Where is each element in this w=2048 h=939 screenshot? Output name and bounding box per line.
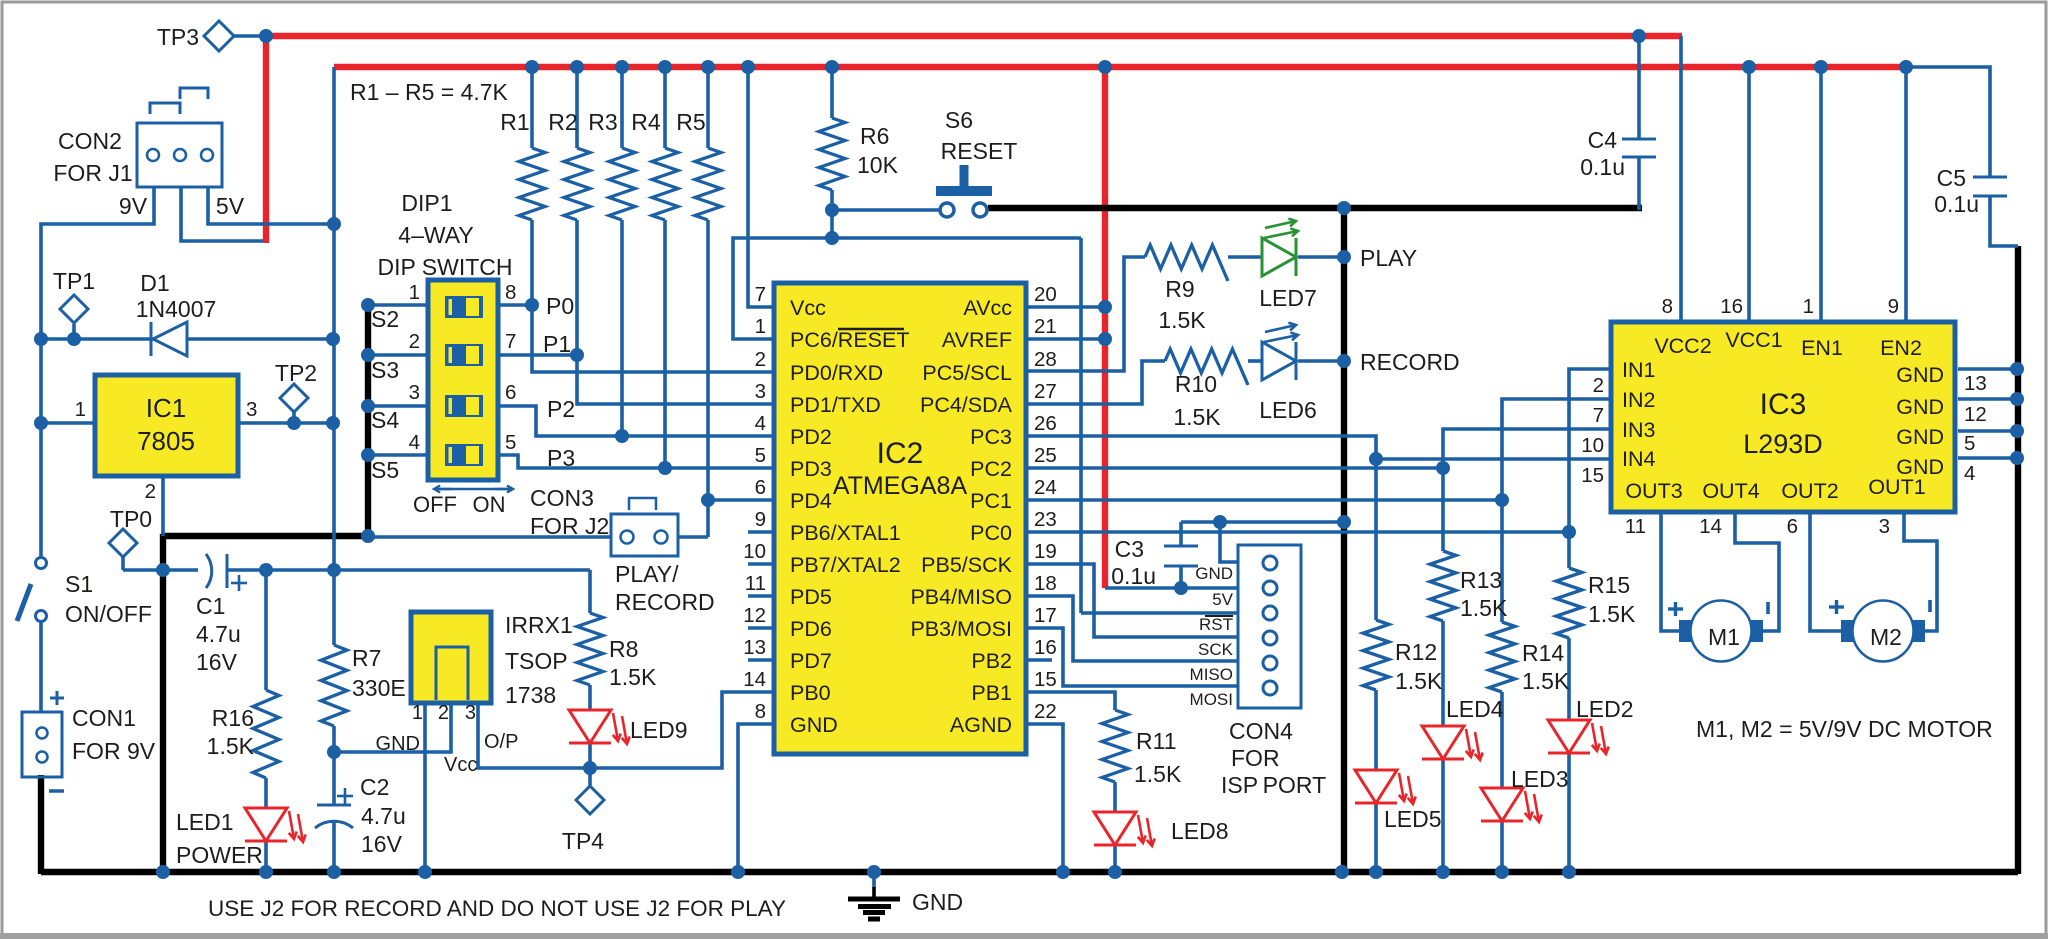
svg-text:P2: P2 [547,396,575,422]
svg-text:2: 2 [145,480,156,503]
svg-text:ISP PORT: ISP PORT [1221,772,1326,798]
wire LED6 to RECORD node [1298,359,1344,363]
svg-text:PD5: PD5 [790,585,832,609]
wire OUT1 to M2 minus [1904,514,1937,631]
svg-text:PB0: PB0 [790,681,831,705]
svg-text:19: 19 [1034,540,1057,563]
svg-text:26: 26 [1034,412,1057,435]
wire R4 top lead [663,67,667,148]
wire CON2 left pin 9V drop [41,187,154,559]
svg-text:LED5: LED5 [1384,806,1442,832]
svg-text:R8: R8 [609,636,638,662]
LED6 record indicator (blue) [1262,342,1296,380]
svg-text:PC4/SDA: PC4/SDA [920,393,1013,417]
svg-text:LED4: LED4 [1446,696,1504,722]
svg-text:R11: R11 [1136,728,1177,754]
wire Vcc feed to IC2 pin7 [748,67,774,307]
svg-text:1.5K: 1.5K [1588,601,1636,627]
svg-text:20: 20 [1034,283,1057,306]
wire CON2 right pin 5V [208,187,334,224]
svg-text:CON3: CON3 [530,485,594,511]
svg-text:15: 15 [1034,668,1057,691]
svg-text:4.7u: 4.7u [196,621,241,647]
svg-text:TP3: TP3 [157,24,199,50]
svg-text:16V: 16V [196,649,238,675]
svg-text:OUT4: OUT4 [1702,479,1759,503]
svg-text:R10: R10 [1175,371,1217,397]
svg-text:8: 8 [505,281,516,304]
LED2 [1548,720,1590,753]
LED3 [1481,788,1523,821]
svg-text:16V: 16V [361,831,403,857]
svg-text:M1: M1 [1708,624,1740,650]
wire DIP pin3 stub [368,404,430,408]
svg-text:TSOP: TSOP [505,648,568,674]
svg-text:IRRX1: IRRX1 [505,612,573,638]
resistor R14 1.5K [1489,622,1515,692]
svg-text:S4: S4 [371,407,399,433]
svg-text:GND: GND [1896,363,1944,387]
svg-text:EN1: EN1 [1801,336,1843,360]
resistors R1-R5 pullups [519,148,545,220]
regulator IC1 7805 [95,375,238,476]
connector CON4 ISP port [1238,545,1301,708]
svg-text:12: 12 [1964,403,1987,426]
wire R5 top lead [706,67,710,148]
svg-text:RESET: RESET [941,138,1018,164]
svg-text:R12: R12 [1395,639,1437,665]
svg-text:R4: R4 [631,109,661,135]
svg-text:15: 15 [1581,464,1604,487]
resistor R6 10K [819,118,845,190]
resistor R8 1.5K [577,613,603,685]
svg-text:PC3: PC3 [970,425,1012,449]
svg-text:2: 2 [438,702,449,724]
svg-text:3: 3 [409,381,420,404]
svg-text:FOR J1: FOR J1 [53,160,132,186]
capacitor C1 4.7u 16V [206,554,212,588]
testpoint TP3 [204,21,234,51]
wire LED9 to O/P node [588,743,592,768]
svg-text:1.5K: 1.5K [1158,307,1206,333]
svg-text:LED6: LED6 [1259,397,1317,423]
wire LED1 to ground [264,841,268,872]
svg-text:ATMEGA8A: ATMEGA8A [833,472,968,500]
svg-text:LED3: LED3 [1511,766,1569,792]
svg-text:PC1: PC1 [970,489,1012,513]
svg-text:C1: C1 [196,593,225,619]
resistor R9 1.5K [1145,245,1228,281]
svg-text:6: 6 [1787,515,1798,538]
svg-text:C2: C2 [360,774,389,800]
svg-text:3: 3 [465,702,476,724]
wire EN2 drop [1904,67,1908,322]
svg-text:VCC2: VCC2 [1654,334,1711,358]
wire R10 to LED6 [1248,359,1262,363]
motor M2 [1853,601,1914,662]
wire IN2 drop [1502,399,1612,622]
svg-text:FOR J2: FOR J2 [530,513,609,539]
svg-text:0.1u: 0.1u [1934,191,1979,217]
svg-text:OUT2: OUT2 [1781,479,1838,503]
wire TSOP O/P to PB0 [478,692,774,768]
LED1 power indicator [245,808,287,841]
net 5V rail (red, second) [334,64,1910,70]
wire C2 to ground [332,820,336,872]
svg-text:PB6/XTAL1: PB6/XTAL1 [790,521,901,545]
svg-text:7805: 7805 [137,426,195,456]
svg-text:R9: R9 [1165,276,1194,302]
wire PB4/MISO pin18 to CON4 MISO [1026,596,1238,661]
wire LED7 to PLAY node [1298,255,1344,259]
svg-text:18: 18 [1034,572,1057,595]
svg-text:PC6/RESET: PC6/RESET [790,328,909,352]
svg-text:M2: M2 [1870,624,1902,650]
svg-text:Vcc: Vcc [790,296,826,320]
svg-text:LED9: LED9 [630,717,688,743]
connector CON3 (J2 play/record) [629,498,656,510]
wire black CON1 minus to ground rail [38,775,44,874]
ground symbol GND [872,872,876,889]
testpoint TP1 [60,295,88,323]
svg-text:PB4/MISO: PB4/MISO [910,585,1012,609]
wire R2 top lead [575,67,579,148]
svg-text:R1: R1 [500,109,529,135]
svg-text:C5: C5 [1937,165,1966,191]
svg-text:1.5K: 1.5K [1460,595,1508,621]
svg-text:21: 21 [1034,315,1057,338]
resistor R12 1.5K [1363,620,1389,690]
svg-text:PD7: PD7 [790,649,832,673]
pin stub PD5 (11) [748,594,774,598]
switch S1 ON/OFF [36,558,47,569]
svg-text:ON: ON [473,492,506,517]
net PC0 - IN1 - R15 [1026,530,1569,534]
svg-text:GND: GND [376,733,420,755]
wire PB5/SCK pin19 to CON4 SCK [1026,564,1238,637]
svg-text:1: 1 [1803,295,1814,318]
svg-text:1.5K: 1.5K [1522,668,1570,694]
svg-text:PB5/SCK: PB5/SCK [921,553,1012,577]
wire R6 bottom to S6 [830,190,834,241]
svg-text:PD0/RXD: PD0/RXD [790,361,883,385]
svg-text:PC2: PC2 [970,457,1012,481]
net PC1 - IN2 - R14 [1026,498,1502,502]
svg-text:LED8: LED8 [1171,818,1229,844]
svg-text:S1: S1 [65,571,93,597]
svg-text:AVcc: AVcc [963,296,1012,320]
svg-text:11: 11 [745,572,766,595]
wire R11 to LED8 [1113,782,1117,812]
LED4 [1422,726,1464,759]
svg-text:S2: S2 [371,306,399,332]
svg-text:RECORD: RECORD [615,589,715,615]
connector CON1 battery 9V [22,712,62,777]
pushbutton S6 RESET [960,165,969,186]
svg-text:9: 9 [755,508,766,531]
resistor R13 1.5K [1430,551,1456,621]
wire R7 bottom to C2 [332,726,336,805]
wire red vertical 5V to AVcc/AVREF/CON4 [1102,67,1108,588]
svg-text:PD6: PD6 [790,617,832,641]
svg-text:S6: S6 [945,107,973,133]
wire R16 to LED1 [264,778,268,808]
net 9V/5V motor-supply rail (red, top) [266,33,1682,39]
svg-text:GND: GND [912,889,963,915]
wire IC1 pin3 output [238,421,333,425]
wire PC5/SCL pin28 to R9 [1026,257,1145,371]
testpoint TP4 [576,786,604,814]
svg-text:PD2: PD2 [790,425,832,449]
IR receiver IRRX1 TSOP1738 [411,612,491,703]
wire IN3 drop [1443,429,1612,551]
svg-text:O/P: O/P [484,731,518,753]
wire LED4 to ground [1441,759,1445,872]
wire R6 top lead [830,67,834,118]
capacitor C3 0.1u [1164,545,1198,548]
svg-text:5: 5 [755,444,766,467]
svg-text:IC1: IC1 [146,393,186,423]
svg-text:1.5K: 1.5K [1173,404,1221,430]
wire C4 bottom to black [1637,157,1641,210]
svg-text:PD1/TXD: PD1/TXD [790,393,881,417]
svg-text:6: 6 [755,476,766,499]
net P1: DIP pin7 / R2 / PD1 [497,353,577,357]
svg-text:RECORD: RECORD [1360,349,1460,375]
wire R9 to LED7 [1228,255,1262,259]
pin stub PD6 (12) [748,626,774,630]
wire C4 tap [1637,36,1641,139]
LED8 [1094,812,1136,845]
svg-text:28: 28 [1034,348,1057,371]
wire IC1 pin2 ground [161,476,165,536]
connector CON2 (J1 voltage select) [137,123,222,187]
motor M1 [1691,601,1752,662]
svg-text:3: 3 [246,398,257,421]
svg-text:P0: P0 [546,293,574,319]
capacitor C4 0.1u [1622,138,1656,141]
svg-text:C3: C3 [1115,536,1144,562]
wire black DIP switch common [365,303,371,538]
svg-text:17: 17 [1034,604,1057,627]
wire IC1 pin1 input [41,421,95,425]
svg-text:25: 25 [1034,444,1057,467]
wire DIP pin2 stub [368,353,430,357]
svg-text:11: 11 [1625,515,1646,538]
wire OUT4 to M1 minus [1735,514,1779,631]
svg-text:CON4: CON4 [1229,718,1293,744]
net P2: DIP pin6 / R3 / PD2 [497,406,774,436]
wire black ground horizontal to DIP switch [161,533,368,539]
svg-text:P3: P3 [547,445,575,471]
svg-text:GND: GND [790,713,838,737]
svg-text:PD4: PD4 [790,489,832,513]
svg-text:IN1: IN1 [1622,358,1655,382]
svg-text:0.1u: 0.1u [1111,563,1156,589]
wire TP2 stem [292,412,296,423]
wire PB1 pin15 to R11 [1026,692,1115,710]
wire VCC1 drop [1747,67,1751,322]
svg-text:D1: D1 [140,270,169,296]
wire TP0 stem [121,557,125,570]
svg-text:PB3/MOSI: PB3/MOSI [910,617,1012,641]
wire IN1 drop [1569,369,1612,568]
net PC3 - IN4 - R12 [1026,436,1612,459]
pin stub PB6/XTAL1 (9) [748,530,774,534]
svg-text:R7: R7 [352,645,381,671]
wire RST ground net C3-top/CON4-GND/black line [1181,520,1344,524]
svg-text:RST: RST [1199,615,1233,634]
wire TSOP GND pin to ground rail [423,703,427,872]
svg-text:C4: C4 [1588,127,1618,153]
svg-text:9V: 9V [119,193,148,219]
wire R13 to LED4 [1441,621,1445,726]
LED7 play indicator (green) [1262,238,1296,276]
wire IC3 GND pins to right ground [1958,367,2017,371]
svg-text:1.5K: 1.5K [609,664,657,690]
svg-text:S3: S3 [371,357,399,383]
svg-text:10K: 10K [857,152,899,178]
svg-text:GND: GND [1896,425,1944,449]
svg-text:4–WAY: 4–WAY [398,222,473,248]
svg-text:5: 5 [1964,432,1975,455]
wire TSOP Vcc pin to R7/C2 node [334,703,451,752]
net P0: DIP pin8 / R1 / PD0 [497,303,532,307]
svg-text:GND: GND [1896,395,1944,419]
wire AVcc pin20 to 5V red [1026,305,1105,309]
wire R1 top lead [530,67,534,148]
svg-text:1: 1 [409,281,420,304]
wire R15 to LED2 [1567,638,1571,720]
svg-text:FOR 9V: FOR 9V [72,738,156,764]
svg-text:AGND: AGND [950,713,1012,737]
wire D1 anode-cathode row [41,337,333,341]
svg-text:PD3: PD3 [790,457,832,481]
wire R3 top lead [620,67,624,148]
microcontroller IC2 ATMEGA8A [774,283,1026,754]
wire C1 to R8 top (5V filtered row) [227,568,590,572]
svg-text:13: 13 [743,636,766,659]
pin stub PB7/XTAL2 (10) [748,562,774,566]
svg-text:S5: S5 [371,457,399,483]
wire TP4 stem [588,768,592,786]
junction dots [259,29,273,43]
resistor R15 1.5K [1556,568,1582,638]
testpoint TP2 [280,384,308,412]
svg-text:14: 14 [743,668,766,691]
svg-text:LED7: LED7 [1259,285,1317,311]
wire VCC2 drop from 9V/5V rail [1679,36,1683,322]
svg-text:DIP1: DIP1 [401,190,452,216]
wire LED5 to ground [1374,803,1378,872]
svg-text:OFF: OFF [413,492,457,517]
svg-text:4: 4 [409,431,420,454]
wire R8 top lead [588,570,592,613]
svg-text:CON2: CON2 [58,128,122,154]
svg-text:TP2: TP2 [275,360,317,386]
testpoint TP0 [109,529,137,557]
wire TP1 stem [72,324,76,339]
svg-text:OUT1: OUT1 [1868,475,1925,499]
svg-text:5: 5 [505,431,516,454]
wire black vertical mid (LED return) [1341,206,1347,872]
svg-text:2: 2 [755,348,766,371]
svg-text:R15: R15 [1588,572,1630,598]
svg-text:10: 10 [743,540,766,563]
svg-text:Vcc: Vcc [444,754,477,776]
svg-text:EN2: EN2 [1880,336,1922,360]
svg-text:IC2: IC2 [877,437,924,470]
svg-text:DIP SWITCH: DIP SWITCH [377,254,512,280]
svg-text:PLAY: PLAY [1360,245,1417,271]
svg-text:TP1: TP1 [53,268,95,294]
svg-text:R14: R14 [1522,640,1564,666]
wire red vertical CON2 middle pin to TP3 rail [263,36,269,243]
wire AVREF pin21 to 5V red [1026,337,1105,341]
svg-text:TP0: TP0 [110,506,152,532]
motor driver IC3 L293D [1611,322,1955,512]
wire GND pin8 to ground rail [738,724,774,872]
wire AGND pin22 to ground [1026,724,1063,872]
wire CON2 middle pin [181,187,263,241]
svg-text:2: 2 [1593,374,1604,397]
wire R14 to LED3 [1500,692,1504,788]
svg-text:PLAY/: PLAY/ [615,561,679,587]
svg-text:IN3: IN3 [1622,418,1656,442]
wire 5V vertical distribution [332,67,336,570]
svg-text:3: 3 [1879,515,1890,538]
wire TP3 stem [234,34,266,38]
resistor R10 1.5K [1165,349,1248,385]
resistor R16 1.5K [253,690,279,778]
svg-text:AVREF: AVREF [942,328,1012,352]
wire OUT3 to M1 plus [1661,514,1680,631]
wire ground bottom rail [41,869,2018,875]
svg-text:8: 8 [755,700,766,723]
net PC2 - IN3 - R13 [1026,466,1443,470]
svg-text:1738: 1738 [505,682,556,708]
svg-text:10: 10 [1581,434,1604,457]
svg-text:4: 4 [755,412,766,435]
svg-text:P1: P1 [543,331,571,357]
wire S1 to CON1 [39,621,43,712]
wire LED2 to ground [1567,753,1571,872]
svg-text:23: 23 [1034,508,1057,531]
wire C5 to right ground [1990,196,2018,246]
svg-text:330E: 330E [352,675,406,701]
svg-text:5V: 5V [216,193,245,219]
svg-text:SCK: SCK [1198,640,1234,659]
svg-text:2: 2 [409,330,420,353]
svg-text:7: 7 [755,283,766,306]
wire PC4/SDA pin27 to R10 [1026,361,1165,404]
svg-text:OUT3: OUT3 [1625,479,1682,503]
pin stub PB2 (16) [1026,658,1052,662]
svg-text:R2: R2 [548,109,577,135]
svg-text:POWER: POWER [176,842,263,868]
svg-text:MISO: MISO [1190,665,1233,684]
svg-text:FOR: FOR [1231,745,1280,771]
svg-text:MOSI: MOSI [1190,690,1233,709]
svg-text:1: 1 [75,398,86,421]
LED9 IR indicator [569,710,611,743]
wire CON3 left pin to ground line [368,535,611,539]
net RESET: R6/S6 to IC2 pin1 and CON4 RST [733,238,1081,339]
wire EN1 drop [1819,67,1823,322]
svg-text:13: 13 [1964,372,1987,395]
svg-text:24: 24 [1034,476,1057,499]
svg-text:1: 1 [412,702,423,724]
